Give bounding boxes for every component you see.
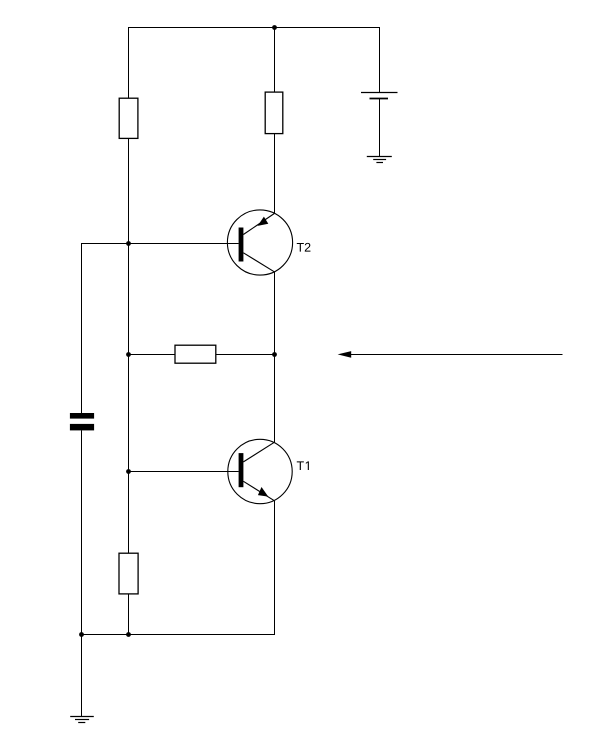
node bottom left junction [79,632,84,637]
resistor R2 [265,92,283,134]
wire R3 to mid node [216,354,275,356]
transistor T1 [228,439,292,503]
wire T1 emitter to bottom rail [274,501,276,635]
capacitor C1 [70,413,94,430]
resistor R3 [175,345,216,363]
wire bottom rail [81,634,275,636]
wire top rail to battery [379,28,381,93]
wire R4 to bottom rail [128,594,130,635]
wire node B3 to node B4 [128,355,130,472]
transistor T2 [227,210,292,275]
wire battery to ground [379,99,381,157]
wire capacitor to bottom node [81,430,83,634]
wire R2 to T2 emitter [274,134,276,214]
wire mid node to T1 collector [274,355,276,443]
wire node B2 to node B3 [128,244,130,355]
label T1 [297,461,309,470]
wire node B4 to R4 [128,472,130,554]
node mid junction [272,352,277,357]
wire node B3 to R3 [129,354,176,356]
wire left rail to capacitor [81,244,83,414]
wire top rail to R1 [128,28,130,99]
wire T2 collector to mid node [274,272,276,355]
node B3 junction [126,352,131,357]
ground (bottom) [70,717,94,723]
wire top rail [128,27,380,29]
wire bottom node to ground [81,635,83,717]
wire top rail to R2 [274,28,276,93]
battery B1 [361,93,398,99]
wire base rail T1 [129,471,239,473]
annotation arrow [338,351,563,358]
label T2 [297,243,311,252]
wire base rail T2 [81,243,239,245]
node top junction [272,25,277,30]
wire R1 to node B2 [128,138,130,243]
node base T2 junction [126,241,131,246]
resistor R1 [119,98,138,138]
ground (battery) [367,157,392,163]
resistor R4 [119,553,138,594]
node bottom R4 junction [126,632,131,637]
node B4 junction [126,469,131,474]
